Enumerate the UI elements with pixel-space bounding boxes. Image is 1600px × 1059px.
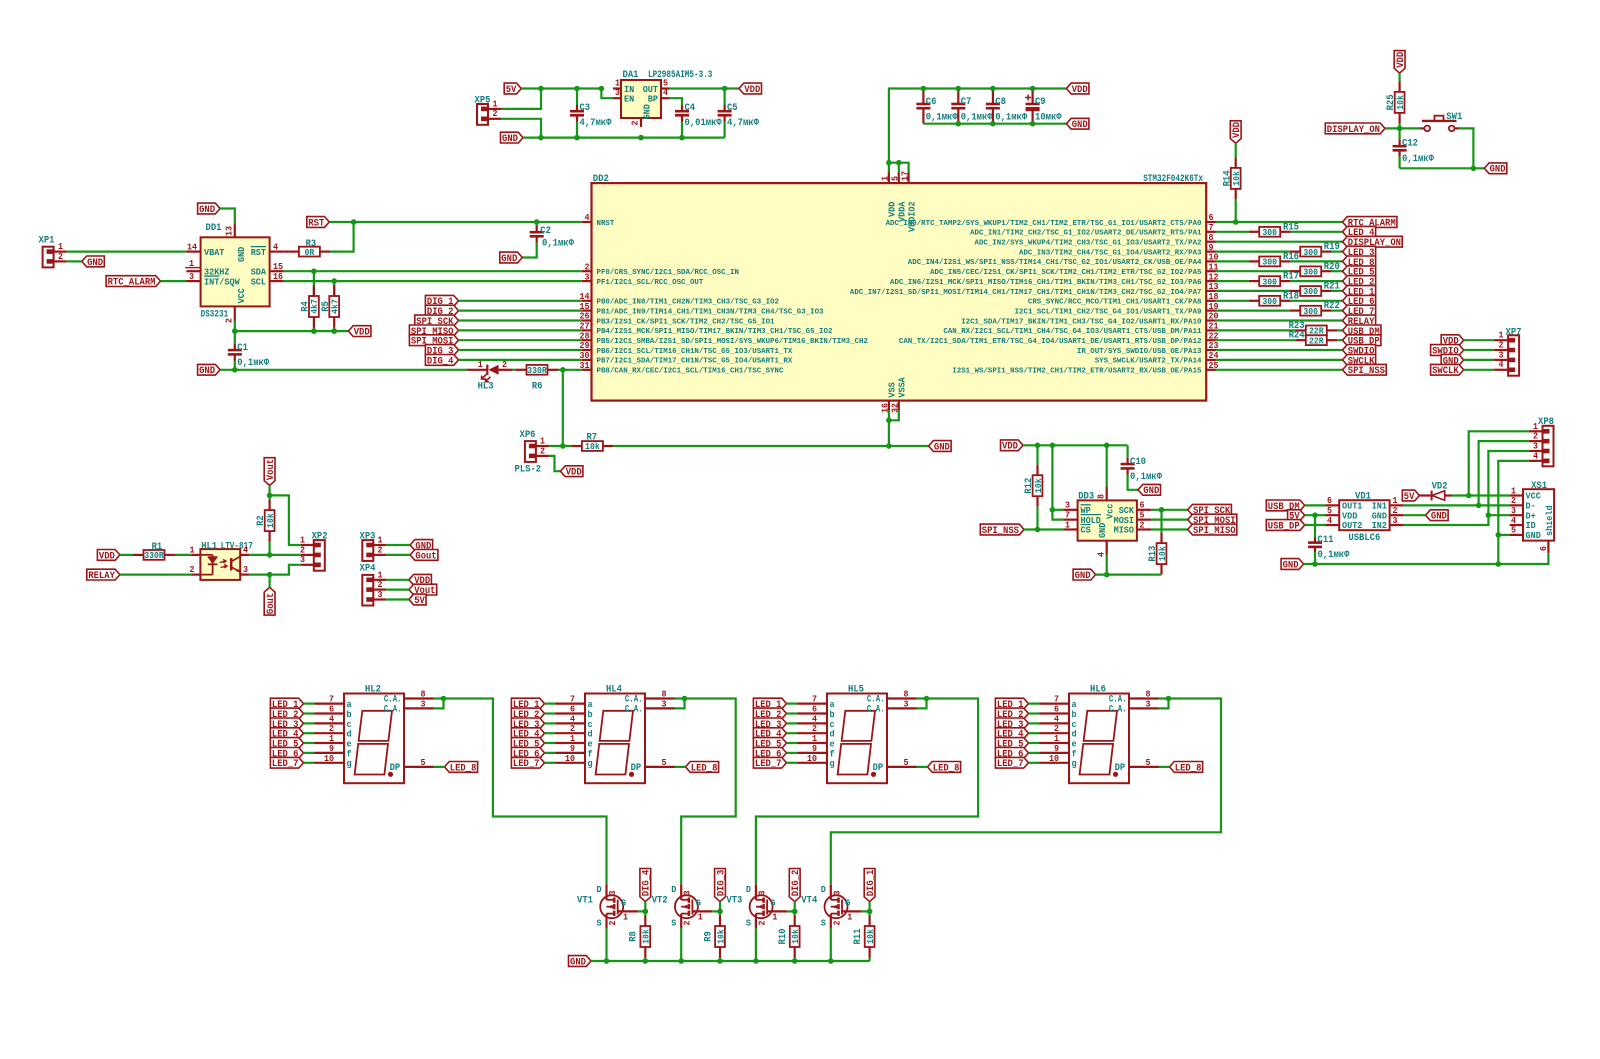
- svg-text:D: D: [597, 884, 602, 895]
- resistor R9 10k: [719, 911, 721, 915]
- pin 6 PA0: [1206, 221, 1216, 223]
- wire: [1385, 127, 1421, 129]
- svg-text:INT/SQW: INT/SQW: [204, 276, 240, 287]
- junction: [1496, 532, 1502, 538]
- pin 8 C.A. of HL4: [645, 697, 675, 699]
- svg-text:0,1мкФ: 0,1мкФ: [961, 112, 993, 123]
- resistor R25 10k: [1398, 73, 1400, 81]
- svg-text:PB0/ADC_IN8/TIM1_CH2N/TIM3_CH3: PB0/ADC_IN8/TIM1_CH2N/TIM3_CH3/TSC_G3_IO…: [597, 299, 780, 307]
- junction: [1496, 561, 1502, 567]
- junction: [1486, 512, 1492, 518]
- wire XP1-1 to VBAT: [67, 251, 187, 253]
- svg-text:Vout: Vout: [266, 459, 277, 480]
- power flag GND (C1): [198, 364, 221, 375]
- svg-text:3: 3: [662, 698, 667, 709]
- svg-text:0,1мкФ: 0,1мкФ: [926, 112, 958, 123]
- svg-text:LED_8: LED_8: [1175, 763, 1202, 774]
- svg-text:shield: shield: [1544, 505, 1555, 536]
- wire gate of VT1: [638, 910, 646, 912]
- power flag GND (R7): [929, 441, 952, 452]
- net flag VDD: [1441, 335, 1464, 346]
- svg-text:3: 3: [421, 698, 426, 709]
- power flag VDD: [739, 83, 762, 94]
- net flag LED_6 (HL2): [270, 748, 303, 759]
- svg-text:C2: C2: [540, 226, 551, 237]
- net flag LED_4 (HL5): [753, 728, 786, 739]
- svg-text:10k: 10k: [715, 929, 726, 944]
- svg-text:SYS_SWCLK/USART2_TX/PA14: SYS_SWCLK/USART2_TX/PA14: [1095, 358, 1202, 366]
- net flag SPI_SCK: [1188, 504, 1232, 515]
- svg-text:PB3/I2S1_CK/SPI1_SCK/TIM2_CH2/: PB3/I2S1_CK/SPI1_SCK/TIM2_CH2/TSC_G5_IO1: [597, 318, 775, 326]
- junction: [638, 135, 644, 141]
- svg-text:GND: GND: [1097, 522, 1108, 538]
- svg-text:ADC_IN6/I2S1_MCK/SPI1_MISO/TIM: ADC_IN6/I2S1_MCK/SPI1_MISO/TIM16_CH1/TIM…: [890, 279, 1202, 287]
- junction: [1035, 527, 1041, 533]
- resistor R1 330R: [144, 550, 165, 560]
- svg-text:SPI_NSS: SPI_NSS: [982, 526, 1019, 537]
- junction: [267, 572, 273, 578]
- pin 6 b of HL4: [556, 712, 586, 714]
- junction: [792, 909, 798, 915]
- svg-text:D: D: [746, 884, 751, 895]
- svg-text:4: 4: [1327, 515, 1332, 526]
- net flag LED_1 (HL2): [270, 698, 303, 709]
- pin 7 a of HL4: [556, 702, 586, 704]
- net flag LED_2 (HL2): [270, 708, 303, 719]
- wire HL3 to R6: [512, 369, 516, 371]
- svg-text:R9: R9: [703, 931, 714, 942]
- svg-text:22R: 22R: [1309, 335, 1324, 346]
- connector XP1: [43, 247, 54, 268]
- junction: [267, 552, 273, 558]
- resistor R18 300: [1259, 296, 1280, 306]
- display HL6 7-segment: [1069, 694, 1129, 784]
- junction: [717, 958, 723, 964]
- svg-text:3: 3: [585, 271, 590, 282]
- power flag VDD (R25): [1394, 51, 1405, 74]
- svg-text:C.A.: C.A.: [625, 705, 643, 716]
- svg-text:VDD: VDD: [1232, 122, 1243, 138]
- led HL3: [467, 369, 488, 371]
- power flag GND (DD1 top): [198, 203, 221, 214]
- svg-text:ADC_IN7/I2S1_SD/SPI1_MOSI/TIM1: ADC_IN7/I2S1_SD/SPI1_MOSI/TIM14_CH1/TIM1…: [850, 289, 1202, 297]
- junction: [990, 86, 996, 92]
- pin 27 PB4: [582, 329, 592, 331]
- svg-text:3: 3: [243, 564, 248, 575]
- svg-text:0,1мкФ: 0,1мкФ: [1130, 472, 1162, 483]
- wire GND rail USB: [1304, 553, 1549, 564]
- pin 22 PA12: [1206, 339, 1216, 341]
- capacitor C8: [992, 89, 994, 105]
- svg-text:R10: R10: [778, 929, 789, 945]
- svg-text:STM32F042K6Tx: STM32F042K6Tx: [1143, 174, 1203, 185]
- svg-text:NRST: NRST: [597, 220, 615, 228]
- svg-text:PB7/I2C1_SDA/TIM17_CH1N/TSC_G5: PB7/I2C1_SDA/TIM17_CH1N/TSC_G5_IO4/USART…: [597, 358, 793, 366]
- resistor R3 0R: [299, 247, 320, 257]
- svg-text:ADC_IN3/TIM2_CH4/TSC_G1_IO4/US: ADC_IN3/TIM2_CH4/TSC_G1_IO4/USART2_RX/PA…: [1019, 249, 1202, 257]
- capacitor C3: [576, 89, 578, 106]
- connector XP6: [525, 441, 536, 462]
- wire source of VT1: [605, 928, 607, 961]
- svg-text:C7: C7: [961, 97, 972, 108]
- net flag LED_7 (HL5): [753, 757, 786, 768]
- connector XP4: [362, 575, 373, 606]
- resistor R23 22R: [1306, 326, 1327, 336]
- svg-text:XP4: XP4: [360, 564, 376, 575]
- wire: [1464, 359, 1494, 361]
- net flag 5V (XP4): [409, 594, 426, 605]
- wire: [459, 339, 582, 341]
- svg-text:D: D: [821, 884, 826, 895]
- resistor R10 10k: [794, 911, 796, 915]
- svg-text:2: 2: [378, 544, 383, 555]
- junction: [311, 328, 317, 334]
- svg-text:PF0/CRS_SYNC/I2C1_SDA/RCC_OSC_: PF0/CRS_SYNC/I2C1_SDA/RCC_OSC_IN: [597, 269, 739, 277]
- wire: [459, 349, 582, 351]
- usb connector XS1: [1523, 489, 1554, 540]
- svg-text:1: 1: [698, 912, 703, 923]
- svg-text:XP1: XP1: [39, 236, 55, 247]
- svg-text:R1: R1: [152, 542, 163, 553]
- svg-text:C.A.: C.A.: [867, 705, 885, 716]
- power flag GND (transistors): [569, 956, 592, 967]
- wire XP8-3: [1488, 451, 1528, 515]
- svg-text:GND: GND: [1526, 530, 1542, 541]
- wire XP8-4: [1498, 461, 1528, 564]
- power flag VDD: [1066, 83, 1089, 94]
- junction: [1476, 503, 1482, 509]
- net flag LED_8 (HL6): [1170, 762, 1203, 773]
- svg-text:4: 4: [663, 87, 668, 98]
- svg-text:VT4: VT4: [801, 896, 817, 907]
- wire SW1 to GND: [1459, 128, 1473, 168]
- wire PB8 to XP6 column: [562, 370, 564, 446]
- wire C.A. of HL2: [434, 699, 444, 709]
- svg-text:5: 5: [1146, 757, 1151, 768]
- svg-text:4: 4: [273, 241, 278, 252]
- svg-text:4,7мкФ: 4,7мкФ: [580, 118, 612, 129]
- junction: [441, 696, 447, 702]
- junction: [538, 86, 544, 92]
- power flag VDD (R1): [97, 550, 120, 561]
- pin VSS 16: [888, 401, 890, 411]
- svg-text:R12: R12: [1024, 478, 1035, 494]
- svg-text:GND: GND: [502, 134, 518, 145]
- net flag LED_8 (HL2): [445, 762, 478, 773]
- svg-text:HL4: HL4: [606, 684, 622, 695]
- svg-text:DA1: DA1: [623, 70, 639, 81]
- svg-text:1: 1: [190, 544, 195, 555]
- net flag SPI_MOSI: [409, 335, 458, 346]
- svg-text:10k: 10k: [641, 929, 652, 944]
- junction: [886, 418, 892, 424]
- wire: [1216, 300, 1249, 302]
- connector XP8: [1543, 426, 1554, 467]
- net flag LED_7 (HL4): [511, 757, 544, 768]
- pin 5 DP of HL2: [404, 766, 434, 768]
- net flag SWDIO: [1343, 345, 1376, 356]
- wire VSS to GND: [888, 410, 890, 446]
- svg-text:ADC_IN5/CEC/I2S1_CK/SPI1_SCK/T: ADC_IN5/CEC/I2S1_CK/SPI1_SCK/TIM2_CH1/TI…: [930, 269, 1202, 277]
- capacitor C4: [681, 105, 683, 111]
- svg-text:LED_8: LED_8: [691, 763, 718, 774]
- junction: [679, 135, 685, 141]
- net flag LED_6: [1343, 295, 1376, 306]
- pin 15 PB1: [582, 310, 592, 312]
- net flag Vout (XP4): [409, 584, 437, 595]
- svg-text:G: G: [621, 898, 626, 909]
- power flag GND (VD1): [1426, 510, 1449, 521]
- wire C12 to GND: [1400, 167, 1485, 169]
- resistor R11 10k: [868, 911, 870, 915]
- svg-text:USBLC6: USBLC6: [1348, 533, 1380, 544]
- net flag LED_7 (HL6): [995, 757, 1028, 768]
- pin 30 PB7: [582, 359, 592, 361]
- svg-text:PB8/CAN_RX/CEC/I2C1_SCL/TIM16_: PB8/CAN_RX/CEC/I2C1_SCL/TIM16_CH1/TSC_SY…: [597, 368, 784, 376]
- wire: [1216, 310, 1290, 312]
- junction: [1050, 507, 1056, 513]
- wire: [459, 319, 582, 321]
- svg-text:RTC_ALARM: RTC_ALARM: [108, 278, 156, 289]
- svg-text:IR_OUT/SYS_SWDIO/USB_OE/PA13: IR_OUT/SYS_SWDIO/USB_OE/PA13: [1077, 348, 1202, 356]
- pin 9 f of HL2: [315, 752, 345, 754]
- net flag LED_5: [1343, 266, 1376, 277]
- net flag LED_6 (HL4): [511, 748, 544, 759]
- junction: [574, 86, 580, 92]
- junction: [232, 367, 238, 373]
- pin 4 c of HL2: [315, 722, 345, 724]
- svg-text:17: 17: [899, 171, 910, 181]
- wire: [1216, 359, 1343, 361]
- svg-text:VCC: VCC: [236, 288, 247, 304]
- net flag LED_1 (HL6): [995, 698, 1028, 709]
- net flag LED_2 (HL6): [995, 708, 1028, 719]
- svg-text:g: g: [1072, 758, 1077, 769]
- transistor VT4 n-mosfet: [825, 895, 848, 918]
- svg-text:3: 3: [1393, 515, 1398, 526]
- svg-text:XP8: XP8: [1538, 417, 1554, 428]
- net flag RST: [307, 217, 330, 228]
- svg-text:C11: C11: [1318, 535, 1334, 546]
- svg-text:XP5: XP5: [475, 96, 491, 107]
- net flag LED_4 (HL4): [511, 728, 544, 739]
- resistor R17 300: [1259, 276, 1280, 286]
- svg-text:R6: R6: [532, 382, 543, 393]
- svg-text:R4: R4: [301, 301, 312, 312]
- svg-text:G: G: [770, 898, 775, 909]
- wire: [1216, 349, 1343, 351]
- svg-text:10: 10: [324, 753, 334, 764]
- wire: [1464, 339, 1494, 341]
- junction: [604, 958, 610, 964]
- pin 7 a of HL6: [1040, 702, 1070, 704]
- net flag VDD (XP4): [409, 574, 432, 585]
- pin 3 PF1: [582, 280, 592, 282]
- svg-text:g: g: [347, 758, 352, 769]
- net flag LED_3 (HL2): [270, 718, 303, 729]
- svg-text:5: 5: [421, 757, 426, 768]
- svg-text:S: S: [821, 918, 826, 929]
- svg-text:SPI_MISO: SPI_MISO: [1193, 526, 1236, 537]
- resistor R14 10k: [1235, 143, 1237, 157]
- pin 3 C.A. of HL5: [887, 707, 917, 709]
- connector XP2: [314, 540, 325, 571]
- svg-text:I2S1_WS/SPI1_NSS/TIM2_CH1/TIM2: I2S1_WS/SPI1_NSS/TIM2_CH1/TIM2_ETR/USART…: [952, 368, 1202, 376]
- svg-text:1: 1: [189, 258, 194, 269]
- svg-text:G: G: [845, 898, 850, 909]
- junction: [896, 160, 902, 166]
- junction: [753, 958, 759, 964]
- svg-text:5: 5: [904, 757, 909, 768]
- svg-text:10мкФ: 10мкФ: [1035, 112, 1062, 123]
- svg-text:OUT2: OUT2: [1342, 520, 1363, 531]
- svg-text:D: D: [671, 884, 676, 895]
- svg-text:PB4/I2S1_MCK/SPI1_MISO/TIM17_B: PB4/I2S1_MCK/SPI1_MISO/TIM17_BKIN/TIM3_C…: [597, 328, 833, 336]
- wire source of VT2: [680, 928, 682, 961]
- svg-text:GND: GND: [1431, 512, 1447, 523]
- svg-text:4: 4: [1095, 552, 1106, 557]
- svg-text:4: 4: [1533, 450, 1538, 461]
- svg-text:Vcc: Vcc: [1105, 503, 1116, 519]
- junction: [1466, 493, 1472, 499]
- wire C.A. of HL6: [1159, 699, 1169, 709]
- svg-text:300: 300: [1303, 266, 1318, 277]
- capacitor C9 (polarized): [1031, 89, 1033, 105]
- net flag DIG_4: [425, 355, 458, 366]
- svg-text:300: 300: [1262, 227, 1277, 238]
- junction: [538, 135, 544, 141]
- svg-text:5: 5: [1511, 525, 1516, 536]
- pin 29 PB6: [582, 349, 592, 351]
- wire XP5-2 to GND: [501, 119, 541, 138]
- junction: [267, 493, 273, 499]
- pin 25 PA15: [1206, 369, 1216, 371]
- svg-text:R13: R13: [1148, 546, 1159, 562]
- svg-text:1: 1: [847, 912, 852, 923]
- svg-text:ADC_IN4/I2S1_WS/SPI1_NSS/TIM14: ADC_IN4/I2S1_WS/SPI1_NSS/TIM14_CH1/TSC_G…: [908, 259, 1202, 267]
- svg-text:VD2: VD2: [1432, 482, 1448, 493]
- wire: [1216, 270, 1290, 272]
- svg-text:S: S: [746, 918, 751, 929]
- junction: [534, 219, 540, 225]
- svg-text:DISPLAY_ON: DISPLAY_ON: [1327, 125, 1380, 136]
- net flag LED_5 (HL4): [511, 738, 544, 749]
- switch SW1: [1421, 127, 1425, 129]
- junction: [1312, 561, 1318, 567]
- capacitor C6: [922, 89, 924, 105]
- svg-text:R7: R7: [587, 433, 598, 444]
- svg-text:S: S: [597, 918, 602, 929]
- wire SDA net: [284, 270, 582, 272]
- pin 14 PB0: [582, 300, 592, 302]
- power flag GND (C11): [1281, 559, 1304, 570]
- wire GND row DD3: [1096, 573, 1162, 575]
- net flag DIG_2: [425, 305, 458, 316]
- svg-text:2: 2: [630, 120, 641, 125]
- wire R1 to HL1-1: [175, 554, 191, 556]
- power flag 5V: [504, 83, 521, 94]
- resistor R13 10k: [1160, 510, 1162, 533]
- net flag RELAY: [1343, 315, 1376, 326]
- junction: [956, 86, 962, 92]
- net flag SWCLK: [1431, 364, 1464, 375]
- wire: [1216, 221, 1343, 223]
- resistor R4 4k7: [313, 271, 315, 296]
- junction: [560, 367, 566, 373]
- junction: [1397, 126, 1403, 132]
- wire: [1216, 329, 1295, 331]
- capacitor C10: [1126, 445, 1128, 458]
- pin 1 e of HL4: [556, 742, 586, 744]
- junction: [232, 328, 238, 334]
- net flag LED_1 (HL4): [511, 698, 544, 709]
- net flag LED_4 (HL6): [995, 728, 1028, 739]
- wire: [1216, 369, 1343, 371]
- svg-text:GND: GND: [236, 246, 247, 262]
- svg-text:PLS-2: PLS-2: [515, 465, 542, 476]
- wire SCL net: [284, 280, 582, 282]
- svg-text:HL2: HL2: [365, 684, 381, 695]
- junction: [1104, 572, 1110, 578]
- svg-text:GND: GND: [501, 254, 517, 265]
- resistor R21 300: [1300, 286, 1321, 296]
- svg-text:SWCLK: SWCLK: [1432, 366, 1459, 377]
- svg-text:0,1мкФ: 0,1мкФ: [995, 112, 1027, 123]
- wire VCC/VDD row: [235, 321, 349, 332]
- resistor R15 300: [1259, 227, 1280, 237]
- svg-text:2: 2: [1140, 519, 1145, 530]
- pin 4 c of HL4: [556, 722, 586, 724]
- wire XP6-1: [549, 445, 572, 447]
- junction: [1159, 507, 1165, 513]
- wire IN1 to D-: [1403, 504, 1509, 506]
- svg-text:300: 300: [1303, 286, 1318, 297]
- junction: [560, 443, 566, 449]
- svg-text:GND: GND: [934, 442, 950, 453]
- connector XP3: [362, 540, 373, 561]
- svg-text:5V: 5V: [414, 596, 425, 607]
- svg-text:300: 300: [1303, 306, 1318, 317]
- junction: [924, 696, 930, 702]
- pin 7 a of HL5: [798, 702, 828, 704]
- net flag GND (XP3): [410, 540, 433, 551]
- power flag GND (SW1): [1484, 163, 1507, 174]
- svg-text:GND: GND: [1283, 560, 1299, 571]
- net flag DIG_4: [640, 869, 651, 902]
- pin 5 DP of HL5: [887, 766, 917, 768]
- svg-text:R3: R3: [306, 239, 317, 250]
- net flag USB_DM (VD1): [1266, 500, 1304, 511]
- svg-text:10: 10: [1049, 753, 1059, 764]
- pin 10 g of HL6: [1040, 762, 1070, 764]
- svg-text:DIG_4: DIG_4: [427, 356, 454, 367]
- pin VSSA 32: [898, 401, 900, 411]
- junction: [331, 328, 337, 334]
- wire SCK to flag: [1151, 509, 1188, 511]
- pin 2 d of HL2: [315, 732, 345, 734]
- svg-text:8: 8: [1095, 494, 1106, 499]
- power flag GND (DD3): [1073, 569, 1096, 580]
- pin VDD 1: [888, 173, 890, 184]
- pin 21 PA11: [1206, 329, 1216, 331]
- wire C.A. of HL5: [917, 699, 927, 709]
- svg-text:HL5: HL5: [848, 684, 864, 695]
- net flag LED_1: [1343, 286, 1376, 297]
- svg-text:g: g: [588, 758, 593, 769]
- svg-text:2: 2: [493, 108, 498, 119]
- capacitor C2: [536, 222, 538, 226]
- wire IN2 to D+: [1403, 515, 1509, 525]
